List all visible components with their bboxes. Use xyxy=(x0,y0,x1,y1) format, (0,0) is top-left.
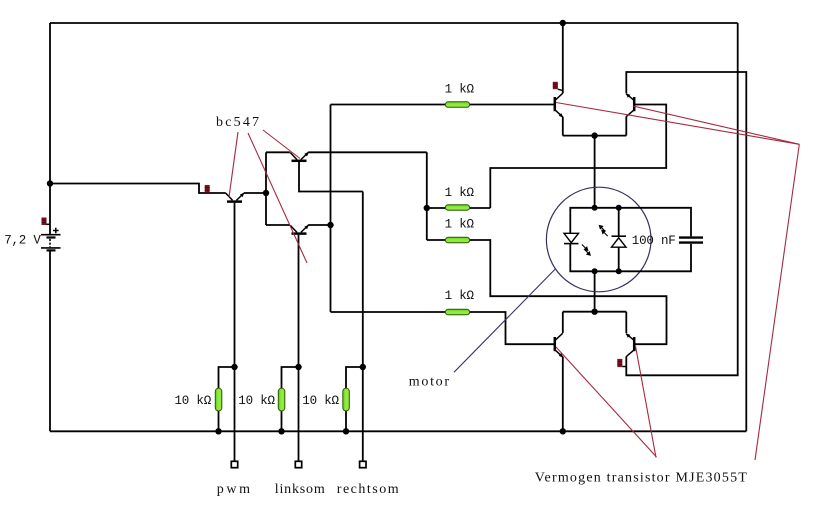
svg-text:motor: motor xyxy=(409,374,451,389)
wire: R6 jog and bottom lead xyxy=(346,367,363,389)
terminal rechtsom xyxy=(360,461,366,467)
wire: R3 right lead to T6 base xyxy=(469,312,555,344)
junction node: R4 bottom rail xyxy=(215,428,221,434)
svg-text:pwm: pwm xyxy=(217,482,253,497)
wire: T6 collector riser xyxy=(562,312,564,333)
wire: T3 base column xyxy=(298,235,300,367)
junction node: Q3 base / R5 xyxy=(295,364,301,370)
wire: R-top left lead xyxy=(331,104,447,106)
svg-text:1 kΩ: 1 kΩ xyxy=(445,82,475,96)
wire: T4 emitter drop xyxy=(562,117,564,136)
resistor R3 1 kOhm xyxy=(445,309,469,315)
wire: rechtsom column upper xyxy=(362,192,364,368)
wire: emitter junction row xyxy=(563,135,627,137)
wire: T5 collector drop xyxy=(625,116,627,135)
motor internal box xyxy=(570,208,691,271)
svg-text:rechtsom: rechtsom xyxy=(337,482,400,497)
wire: R3 left lead xyxy=(331,311,448,313)
wire: R-top right lead to T4 base xyxy=(469,104,554,106)
wire: R1/R2 left column xyxy=(426,152,428,240)
resistor R2 1 kOhm xyxy=(445,237,469,243)
wire: R2 right lead and route to T7 base xyxy=(469,240,667,344)
junction node: Q1 base / R4 xyxy=(231,364,237,370)
wire: node B column xyxy=(330,105,332,313)
wire: R1 right lead xyxy=(469,207,490,209)
wire: T1 base column to R4 xyxy=(234,203,236,367)
junction node: motor box bottom left xyxy=(592,268,598,274)
svg-text:bc547: bc547 xyxy=(216,115,261,130)
junction node A (Q1 emitter) xyxy=(263,190,269,196)
resistor R5 10 kOhm xyxy=(278,388,285,411)
wire: motor out column xyxy=(594,271,596,311)
wire: R2 left lead xyxy=(427,239,447,241)
svg-text:10 kΩ: 10 kΩ xyxy=(238,394,275,408)
wire: T5 emitter riser to right rail B xyxy=(626,72,746,431)
transistor Q2 bc547 xyxy=(290,152,309,161)
resistor R-top 1 kOhm xyxy=(445,102,469,108)
junction node: lower collector row xyxy=(591,309,597,315)
callout line label to Q5 xyxy=(633,106,799,144)
callout line bc547 to Q1 xyxy=(229,132,238,197)
motor diode D2 (right, cathode up) xyxy=(612,236,627,247)
resistor R1 1 kOhm xyxy=(445,205,469,211)
transistor Q4 MJE3055T (top left) xyxy=(555,93,564,117)
transistor Q7 MJE3055T (bottom right, mirrored) xyxy=(626,333,635,356)
wire: T3 emitter to node B xyxy=(308,224,330,226)
junction node: motor box top left xyxy=(592,205,598,211)
current marker on battery xyxy=(42,218,51,226)
wire: battery tap to T1 collector xyxy=(50,184,226,194)
transistor Q6 MJE3055T (bottom left) xyxy=(555,333,564,357)
wire: bottom 0V rail xyxy=(50,430,746,432)
resistor R6 10 kOhm xyxy=(343,388,350,411)
svg-text:1 kΩ: 1 kΩ xyxy=(445,186,475,200)
wire: R4 jog and bottom lead xyxy=(219,367,235,389)
junction node B (Q3 emitter) xyxy=(327,222,333,228)
wire: T6 emitter drop to bottom rail xyxy=(562,357,564,431)
wire: T3 collector stub xyxy=(266,224,290,226)
callout connector line right xyxy=(755,144,799,460)
wire: T4 collector riser xyxy=(562,23,564,93)
D1 emission arrows xyxy=(582,245,590,256)
motor diode columns xyxy=(618,208,620,236)
wire: R1 left lead xyxy=(427,207,447,209)
svg-text:7,2 V: 7,2 V xyxy=(4,234,41,248)
capacitor C1 100 nF xyxy=(679,238,703,243)
wire: T1 emitter to node A xyxy=(244,192,266,194)
callout line label to Q7 xyxy=(636,346,657,458)
wire: T7 collector route to top rail via right rail A xyxy=(626,23,737,375)
svg-text:linksom: linksom xyxy=(275,482,326,497)
resistor R4 10 kOhm xyxy=(215,388,222,411)
junction node: rechtsom / R6 xyxy=(360,364,366,370)
callout line label to Q6 xyxy=(556,347,657,457)
wire: T2 emitter to R1/R2 column xyxy=(308,151,427,153)
callout line bc547 to Q2 xyxy=(263,130,300,159)
wire: left rail lower (battery - to bottom rail) xyxy=(49,251,51,431)
battery B1 7,2 V xyxy=(41,228,61,251)
wire: T2 base route xyxy=(299,162,363,192)
svg-text:10 kΩ: 10 kΩ xyxy=(175,394,212,408)
terminal linksom xyxy=(295,461,301,467)
transistor Q3 bc547 xyxy=(290,225,309,234)
current marker on Q4 xyxy=(553,82,563,91)
wire: motor feed column xyxy=(594,136,596,208)
junction node: Q6 emitter bottom rail xyxy=(560,428,566,434)
current marker on Q1 base wire xyxy=(205,185,210,193)
callout line label to Q4 xyxy=(556,103,799,145)
wire: left rail upper (battery + to top rail) xyxy=(49,23,51,234)
wire: top +7.2V rail xyxy=(50,22,738,24)
junction node: R5 bottom rail xyxy=(278,428,284,434)
motor diode D1 (left, cathode down) xyxy=(564,233,579,243)
svg-text:Vermogen transistor MJE3055T: Vermogen transistor MJE3055T xyxy=(535,471,748,486)
transistor Q1 bc547 xyxy=(226,193,245,202)
D2 emission arrows xyxy=(599,226,607,237)
svg-text:1 kΩ: 1 kΩ xyxy=(445,218,475,232)
junction node: R1 left xyxy=(424,205,430,211)
junction node: motor box top right xyxy=(616,205,622,211)
wire: lower collector row xyxy=(563,311,627,313)
motor M1 circle xyxy=(546,187,651,292)
wire: T2 collector stub xyxy=(266,151,290,153)
junction node: R6 bottom rail xyxy=(343,428,349,434)
svg-text:100 nF: 100 nF xyxy=(632,234,676,248)
wire: linksom terminal column xyxy=(298,367,300,463)
callout line bc547 to Q3 xyxy=(248,133,307,263)
current marker on Q7 xyxy=(617,359,626,367)
wire: R5 jog and bottom lead xyxy=(282,367,299,389)
wire: node A column xyxy=(265,152,267,225)
wire: pwm terminal column xyxy=(234,367,236,463)
transistor Q5 MJE3055T (top right, mirrored) xyxy=(626,93,635,116)
callout line motor to circle xyxy=(454,269,555,372)
junction node: motor box bottom right xyxy=(616,268,622,274)
wire: T5 base route to R1 xyxy=(490,105,666,209)
wire: T7 emitter riser xyxy=(625,312,627,333)
junction node: emitter row / motor feed xyxy=(591,132,597,138)
wire: rechtsom terminal column xyxy=(362,367,364,463)
svg-text:1 kΩ: 1 kΩ xyxy=(445,289,475,303)
svg-text:10 kΩ: 10 kΩ xyxy=(302,394,339,408)
junction node: battery tap xyxy=(47,180,53,186)
terminal pwm xyxy=(231,461,237,467)
junction node: top rail / Q4 collector xyxy=(560,20,566,26)
